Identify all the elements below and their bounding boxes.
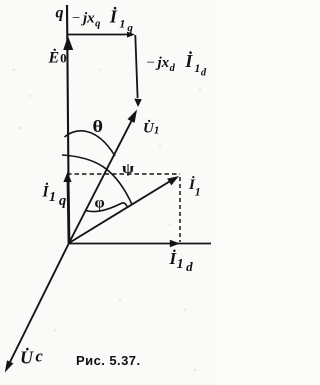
svg-text:q: q [56, 5, 64, 22]
d-axis horizontal line [69, 243, 211, 245]
wire segment -jxq I1q horizontal [67, 34, 128, 36]
dashed vertical projection line [179, 177, 181, 242]
wire q-axis vertical line [67, 5, 69, 243]
arrowhead E0 up [63, 36, 73, 50]
arrowhead I1d right [170, 240, 180, 247]
svg-text:φ: φ [95, 195, 106, 212]
arrowhead -jxd I1d down [134, 99, 142, 108]
svg-text:Ė0: Ė0 [48, 48, 67, 67]
arrowhead Uc down-left [5, 360, 14, 372]
dashed horizontal projection line [67, 173, 180, 175]
vector I1q [68, 181, 69, 243]
arrowhead I1 right [167, 176, 179, 185]
vector U1 [69, 116, 134, 243]
arc theta [65, 131, 116, 156]
wire segment -jxd I1d vertical [135, 35, 137, 98]
vector Uc [10, 243, 70, 363]
svg-text:ψ: ψ [122, 161, 135, 177]
vector I1 [69, 180, 172, 243]
svg-text:θ: θ [93, 117, 104, 136]
arrowhead -jxq I1q right [127, 32, 135, 38]
svg-text:U̇c: U̇c [20, 347, 44, 368]
arc psi [62, 155, 132, 205]
arc phi [86, 203, 128, 212]
arrowhead U1 up-right [128, 110, 138, 123]
svg-text:Рис. 5.37.: Рис. 5.37. [76, 353, 141, 368]
arrowhead I1q up [63, 172, 71, 182]
